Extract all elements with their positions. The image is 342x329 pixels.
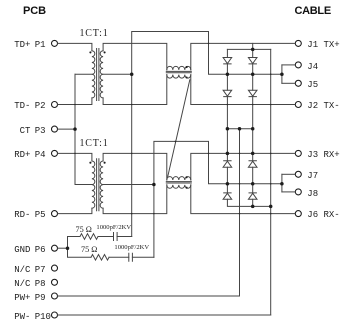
wire C1 to T1 CT net — [117, 236, 132, 238]
wire T2 secondary bottom to choke CMC2 — [103, 185, 167, 214]
terminal J1 TX+ — [295, 40, 301, 46]
wire T1 secondary top to choke CMC1 — [103, 43, 167, 69]
wire T2 secondary top to choke CMC2 — [103, 153, 167, 180]
node bottom row D8 — [251, 205, 255, 209]
resistor R1 75 ohm — [80, 234, 98, 240]
terminal P6 (GND) — [52, 245, 58, 251]
terminal J4 — [295, 62, 301, 68]
diode D1 — [223, 58, 232, 64]
resistor R2 75 ohm — [91, 254, 109, 260]
label P5 — [14, 211, 30, 220]
label P10 — [14, 313, 30, 322]
diode D2 — [248, 58, 257, 64]
wire junction to R1 branch — [68, 237, 81, 249]
diode D7 — [223, 193, 232, 199]
label P8 — [14, 280, 30, 289]
wire diagonal CMC1 to CMC2 — [168, 80, 190, 177]
wire J5 branch — [282, 82, 295, 84]
terminal P9 (PW+) — [52, 293, 58, 299]
wire T2 secondary center tap to node — [103, 184, 154, 186]
wire RD- P5 to T2 primary bottom — [58, 208, 92, 213]
label P6 — [14, 246, 30, 255]
capacitor C1 1000pF/2KV — [114, 233, 118, 241]
label P9 — [14, 294, 30, 303]
diode D3 — [223, 90, 232, 96]
label J3 RX+ — [307, 151, 339, 160]
label P7 — [14, 266, 30, 275]
label T2 ratio 1CT:1 — [80, 139, 109, 149]
wire T1 secondary bottom to choke CMC1 — [103, 75, 167, 105]
wire CMC1 top out to J1 TX+ — [191, 43, 295, 69]
label T1 ratio 1CT:1 — [80, 29, 109, 39]
wire T2 primary center tap — [75, 184, 92, 186]
node T1 secondary CT — [130, 73, 134, 77]
node T2 secondary CT — [152, 183, 156, 187]
label P3 — [20, 127, 31, 136]
transformer T2 core — [97, 159, 99, 211]
terminal P1 (TD+) — [52, 40, 58, 46]
diode D5 — [223, 161, 232, 167]
transformer T1 core — [97, 49, 99, 101]
node TX rail D2 — [251, 72, 255, 76]
label J8 — [307, 190, 318, 199]
diode D8 — [248, 193, 257, 199]
transformer T2 phase dots — [89, 162, 91, 164]
wire T1 secondary center tap to node — [103, 73, 132, 75]
terminal P4 (RD+) — [52, 150, 58, 156]
terminal J2 TX- — [295, 102, 301, 108]
wire stub TX+ to diode tops — [252, 43, 254, 49]
diode D6 — [248, 161, 257, 167]
terminal J5 — [295, 80, 301, 86]
label R2 value 75 ohm — [81, 246, 97, 254]
diode D4 — [248, 90, 257, 96]
wire J7 branch — [282, 173, 295, 175]
wire T1 CT net down to capacitor C1 — [131, 74, 133, 236]
node RX rail D5 — [226, 182, 230, 186]
transformer T1 primary winding — [92, 51, 95, 98]
wire crossing marks (as in source image) — [74, 104, 76, 106]
label R1 value 75 ohm — [76, 226, 92, 234]
node PW+ row mid — [238, 127, 242, 131]
label C2 value 1000pF/2KV — [114, 245, 149, 252]
terminal P10 (PW-) — [52, 312, 58, 318]
terminal P2 (TD-) — [52, 102, 58, 108]
wire T1 primary center tap — [75, 73, 92, 75]
transformer T1 phase dots — [89, 51, 91, 53]
node bottom row PW- — [269, 205, 273, 209]
terminal P5 (RD-) — [52, 211, 58, 217]
choke CMC2 bottom winding — [167, 185, 191, 188]
terminal P8 (N/C) — [52, 279, 58, 285]
label J4 — [307, 63, 318, 72]
wire CMC2 bottom out to J6 RX- — [191, 185, 295, 214]
wire PW+ rail vertical — [239, 129, 241, 296]
wire PW- rail vertical — [270, 49, 272, 315]
wire J8 branch — [282, 191, 295, 193]
terminal P7 (N/C) — [52, 265, 58, 271]
node RX+ D5 — [226, 152, 230, 156]
wire GND P6 to RC junction — [58, 247, 68, 249]
wire CMC2 top out to J3 RX+ — [191, 153, 295, 180]
wire R1 to C1 — [98, 236, 114, 238]
wire primary center-tap vertical rail — [74, 74, 76, 184]
terminal J3 RX+ — [295, 150, 301, 156]
choke CMC1 bottom winding — [167, 75, 191, 78]
capacitor C2 1000pF/2KV — [129, 253, 133, 261]
wire PW+ junction row — [227, 128, 252, 130]
transformer T1 secondary winding — [100, 51, 103, 98]
wire TX diode tops tie bar — [227, 48, 270, 50]
node RX rail J7/J8 — [280, 182, 284, 186]
node RX rail D6 — [251, 182, 255, 186]
node TX diode top tie — [251, 48, 255, 52]
choke CMC2 top winding — [167, 177, 191, 180]
wire CMC1 bottom out to J2 TX- — [191, 75, 295, 105]
label J2 TX- — [307, 102, 339, 111]
wire RX mid rail to J7/J8 bracket — [227, 183, 282, 185]
label J7 — [307, 172, 318, 181]
node PW+ row right — [251, 127, 255, 131]
node CT P3 junction — [73, 127, 77, 131]
wire RD+ P4 to T2 primary top — [58, 153, 92, 161]
wire J7/J8 bracket — [281, 174, 283, 192]
wire TX mid rail to J4/J5 bracket — [227, 73, 282, 75]
transformer T2 primary winding — [92, 161, 95, 208]
wire T2 CT net down to capacitor C2 — [153, 185, 155, 258]
CABLE header — [295, 5, 331, 17]
label J5 — [307, 81, 318, 90]
choke CMC2 core — [166, 182, 191, 183]
terminal J6 RX- — [295, 211, 301, 217]
wire T1 CT net: up over and down to TX mid rail — [132, 32, 228, 75]
wire CT P3 to center-tap rail — [58, 128, 75, 130]
choke CMC1 phase dots — [186, 66, 188, 68]
wire diode column x=252.7 segments — [252, 49, 254, 57]
label P2 — [14, 102, 30, 111]
wire PW+ P9 line — [58, 295, 240, 297]
node TX rail D1 — [226, 72, 230, 76]
label C1 value 1000pF/2KV — [96, 225, 131, 232]
wire junction to R2 branch — [68, 248, 92, 257]
choke CMC1 core — [166, 71, 191, 72]
wire diode column x=227.4 segments — [226, 49, 228, 57]
node RX+ D6 — [251, 152, 255, 156]
PCB header — [23, 5, 46, 17]
terminal J7 — [295, 171, 301, 177]
wire C2 to T2 CT net — [132, 256, 154, 258]
label J1 TX+ — [307, 41, 339, 50]
terminal J8 — [295, 189, 301, 195]
node GND junction — [66, 246, 70, 250]
wire PW- P10 line — [58, 314, 271, 316]
choke CMC1 top winding — [167, 66, 191, 69]
wire J4/J5 bracket — [281, 65, 283, 83]
wire R2 to C2 — [109, 256, 129, 258]
transformer T2 secondary winding — [100, 161, 103, 208]
wire T2 CT net: up over and down to RX mid rail — [154, 141, 228, 184]
choke CMC2 phase dots — [186, 176, 188, 178]
wire TD+ P1 to T1 primary top — [58, 43, 92, 50]
wire RX diode bottom row — [227, 199, 270, 206]
label P1 — [14, 41, 30, 50]
label J6 RX- — [307, 211, 339, 220]
wire J4 branch — [282, 64, 295, 66]
wire TD- P2 to T1 primary bottom — [58, 98, 92, 105]
node TX rail J4/J5 — [280, 72, 284, 76]
label P4 — [14, 151, 30, 160]
node PW+ row left — [226, 127, 230, 131]
terminal P3 (CT) — [52, 126, 58, 132]
